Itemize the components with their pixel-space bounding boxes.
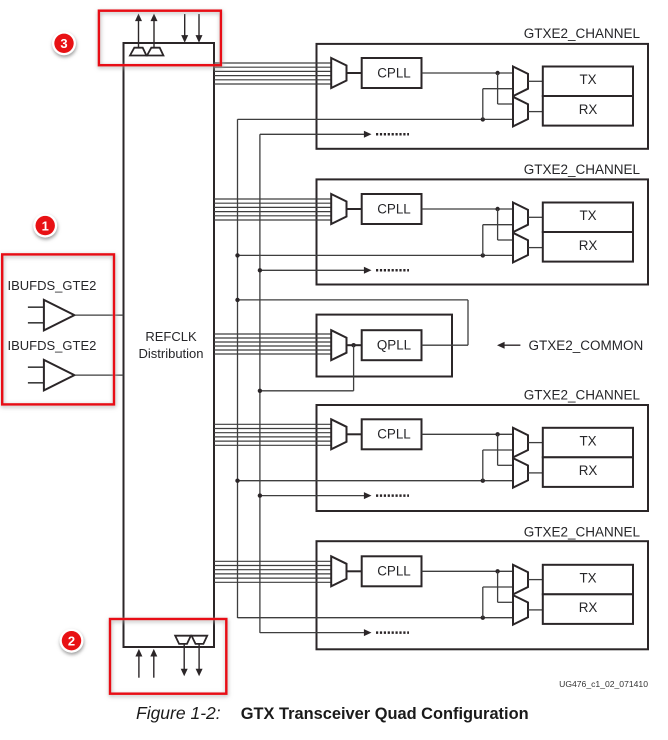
junction V2-channel2 — [258, 268, 262, 272]
svg-text:TX: TX — [579, 208, 596, 223]
channel 3 wire CPLL-out drop to RX mux — [498, 434, 513, 465]
channel 2 wire CPLL output — [422, 208, 514, 210]
top mux trapezoid B — [147, 48, 163, 56]
channel 1 wire CPLL-out drop to RX mux — [498, 73, 513, 104]
junction V2-QPLL-mux-feed — [258, 389, 262, 393]
svg-text:IBUFDS_GTE2: IBUFDS_GTE2 — [8, 338, 97, 353]
channel 1 TX block — [543, 67, 633, 97]
common block GTXE2_COMMON box — [317, 315, 453, 377]
svg-text:CPLL: CPLL — [377, 65, 411, 80]
channel 3 box — [317, 405, 649, 511]
red callout box 3 (top refclk outputs) — [99, 11, 221, 65]
caption Figure 1-2: GTX Transceiver Quad Configuration — [136, 703, 529, 723]
channel 3 TX block — [543, 428, 633, 458]
channel 4 wire TX mux output — [528, 579, 543, 581]
top mux trapezoid A — [130, 48, 146, 56]
bottom output arrow 1 (down) — [181, 644, 188, 676]
common refclk bundle (6 wires) — [214, 334, 331, 354]
svg-text:IBUFDS_GTE2: IBUFDS_GTE2 — [8, 278, 97, 293]
svg-text:1: 1 — [42, 218, 49, 233]
svg-text:2: 2 — [68, 633, 75, 648]
channel 2 wire QPLL clock input — [238, 254, 514, 256]
svg-text:Distribution: Distribution — [138, 346, 203, 361]
wire vertical ref-select distribution line V2 — [259, 134, 261, 633]
red callout box 1 (IBUFDS buffers) — [2, 254, 114, 404]
channel 2 RX block — [543, 232, 633, 262]
red badge 2 — [60, 629, 84, 653]
channel 3 wire CPLL output — [422, 433, 514, 435]
bottom input arrow 2 (up) — [150, 649, 157, 678]
channel 2 refclk bundle (6 wires) — [214, 199, 331, 220]
channel 2 TX block — [543, 203, 633, 233]
channel 4 wire CPLL-out drop to RX mux — [498, 571, 513, 602]
channel 1 RX clock mux — [513, 97, 528, 127]
block REFCLK Distribution — [124, 43, 215, 647]
channel 4 wire CPLL output — [422, 570, 514, 572]
wire QPLL output loop to V1 — [238, 300, 469, 345]
bottom mux trapezoid A — [175, 636, 191, 644]
channel 3 TX clock mux — [513, 428, 528, 458]
svg-text:GTXE2_COMMON: GTXE2_COMMON — [529, 338, 644, 353]
svg-text:GTXE2_CHANNEL: GTXE2_CHANNEL — [524, 387, 641, 402]
channel 1 wire CPLL output — [422, 72, 514, 74]
wire QPLL mux output to V2 — [260, 345, 354, 391]
buffer IBUFDS_GTE2 #1 (triangle with input stubs) — [28, 300, 75, 331]
channel 4 wire QPLL riser to TX mux — [483, 587, 513, 618]
channel 4 CPLL — [362, 556, 422, 586]
channel 2 south/north refclk arrow — [260, 267, 409, 274]
channel 3 CPLL input mux — [331, 419, 346, 449]
channel 4 RX clock mux — [513, 595, 528, 625]
channel 2 CPLL — [362, 194, 422, 224]
svg-text:TX: TX — [579, 72, 596, 87]
svg-text:Figure 1-2:: Figure 1-2: — [136, 703, 221, 723]
channel 1 CPLL — [362, 58, 422, 88]
channel 4 RX block — [543, 594, 633, 624]
junction QPLL mux output — [351, 343, 355, 347]
channel 2 box — [317, 179, 649, 284]
svg-text:GTXE2_CHANNEL: GTXE2_CHANNEL — [524, 162, 641, 177]
channel 3 wire QPLL clock input — [238, 480, 514, 482]
channel 2 wire RX mux output — [528, 247, 543, 249]
bottom input arrow 1 (up) — [135, 649, 142, 678]
wire QPLL mux to QPLL — [347, 344, 362, 346]
channel 2 RX clock mux — [513, 233, 528, 263]
channel 4 junction QPLL-in — [481, 616, 485, 620]
channel 3 RX block — [543, 457, 633, 487]
svg-text:CPLL: CPLL — [377, 564, 411, 579]
channel 3 wire TX mux output — [528, 442, 543, 444]
channel 3 south/north refclk arrow — [260, 492, 409, 499]
junction V1-channel2 — [235, 253, 239, 257]
channel 4 CPLL input mux — [331, 556, 346, 586]
bottom output arrow 2 (down) — [196, 644, 203, 676]
svg-text:TX: TX — [579, 434, 596, 449]
svg-text:REFCLK: REFCLK — [145, 329, 197, 344]
label GTXE2_COMMON with left arrow — [497, 338, 643, 353]
common QPLL input mux — [331, 330, 346, 360]
wire vertical QPLL-clock distribution line V1 — [237, 119, 239, 618]
channel 3 junction QPLL-in — [481, 479, 485, 483]
channel 2 wire TX mux output — [528, 216, 543, 218]
channel 3 CPLL — [362, 419, 422, 449]
channel 4 TX block — [543, 565, 633, 595]
svg-text:RX: RX — [579, 102, 598, 117]
svg-text:TX: TX — [579, 571, 596, 586]
channel 1 wire mux to CPLL — [347, 72, 362, 74]
channel 3 wire QPLL riser to TX mux — [483, 450, 513, 481]
channel 2 wire CPLL-out drop to RX mux — [498, 209, 513, 240]
block QPLL — [362, 330, 422, 360]
buffer IBUFDS_GTE2 #2 (triangle with input stubs) — [28, 360, 75, 391]
svg-text:UG476_c1_02_071410: UG476_c1_02_071410 — [559, 679, 648, 689]
svg-text:RX: RX — [579, 238, 598, 253]
wire buffer2 output to REFCLK block — [74, 374, 123, 376]
channel 1 junction CPLL-out — [495, 71, 499, 75]
channel 4 wire mux to CPLL — [347, 570, 362, 572]
channel 3 wire RX mux output — [528, 472, 543, 474]
svg-text:GTXE2_CHANNEL: GTXE2_CHANNEL — [524, 26, 641, 41]
channel 3 junction CPLL-out — [495, 432, 499, 436]
svg-text:RX: RX — [579, 463, 598, 478]
channel 3 refclk bundle (6 wires) — [214, 424, 331, 445]
channel 4 TX clock mux — [513, 565, 528, 595]
channel 4 wire QPLL clock input — [238, 617, 514, 619]
junction V2-channel3 — [258, 493, 262, 497]
channel 2 junction CPLL-out — [495, 207, 499, 211]
channel 1 wire QPLL riser to TX mux — [483, 89, 513, 120]
channel 3 RX clock mux — [513, 458, 528, 488]
channel 2 CPLL input mux — [331, 194, 346, 224]
svg-text:CPLL: CPLL — [377, 427, 411, 442]
channel 1 RX block — [543, 96, 633, 126]
channel 1 junction QPLL-in — [481, 117, 485, 121]
red badge 1 — [33, 214, 57, 238]
channel 1 wire TX mux output — [528, 80, 543, 82]
top input arrow 1 (down) — [181, 14, 188, 43]
channel 1 wire QPLL clock input — [238, 118, 514, 120]
channel 4 wire RX mux output — [528, 609, 543, 611]
junction V1-channel3 — [235, 479, 239, 483]
channel 1 TX clock mux — [513, 67, 528, 97]
channel 2 wire mux to CPLL — [347, 208, 362, 210]
svg-text:3: 3 — [60, 36, 67, 51]
channel 1 wire RX mux output — [528, 111, 543, 113]
channel 1 CPLL input mux — [331, 58, 346, 88]
channel 1 refclk bundle (6 wires) — [214, 63, 331, 84]
junction V1-QPLL-output — [235, 298, 239, 302]
channel 2 wire QPLL riser to TX mux — [483, 225, 513, 256]
channel 2 junction QPLL-in — [481, 253, 485, 257]
top input arrow 2 (down) — [196, 14, 203, 43]
svg-text:QPLL: QPLL — [377, 338, 411, 353]
channel 1 box — [317, 44, 649, 149]
svg-text:GTX Transceiver Quad Configura: GTX Transceiver Quad Configuration — [241, 705, 529, 723]
channel 4 junction CPLL-out — [495, 569, 499, 573]
channel 4 refclk bundle (6 wires) — [214, 561, 331, 582]
svg-text:GTXE2_CHANNEL: GTXE2_CHANNEL — [524, 524, 641, 539]
red callout box 2 (bottom refclk outputs) — [110, 619, 226, 694]
top output arrow 1 (up) — [135, 14, 142, 48]
top output arrow 2 (up) — [151, 14, 158, 48]
red badge 3 — [52, 31, 76, 55]
wire buffer1 output to REFCLK block — [74, 314, 123, 316]
channel 3 wire mux to CPLL — [347, 433, 362, 435]
svg-text:RX: RX — [579, 600, 598, 615]
bottom mux trapezoid B — [192, 636, 208, 644]
channel 4 south/north refclk arrow — [260, 629, 409, 636]
channel 4 box — [317, 541, 649, 649]
svg-text:CPLL: CPLL — [377, 201, 411, 216]
channel 2 TX clock mux — [513, 203, 528, 233]
channel 1 south/north refclk arrow — [260, 131, 409, 138]
